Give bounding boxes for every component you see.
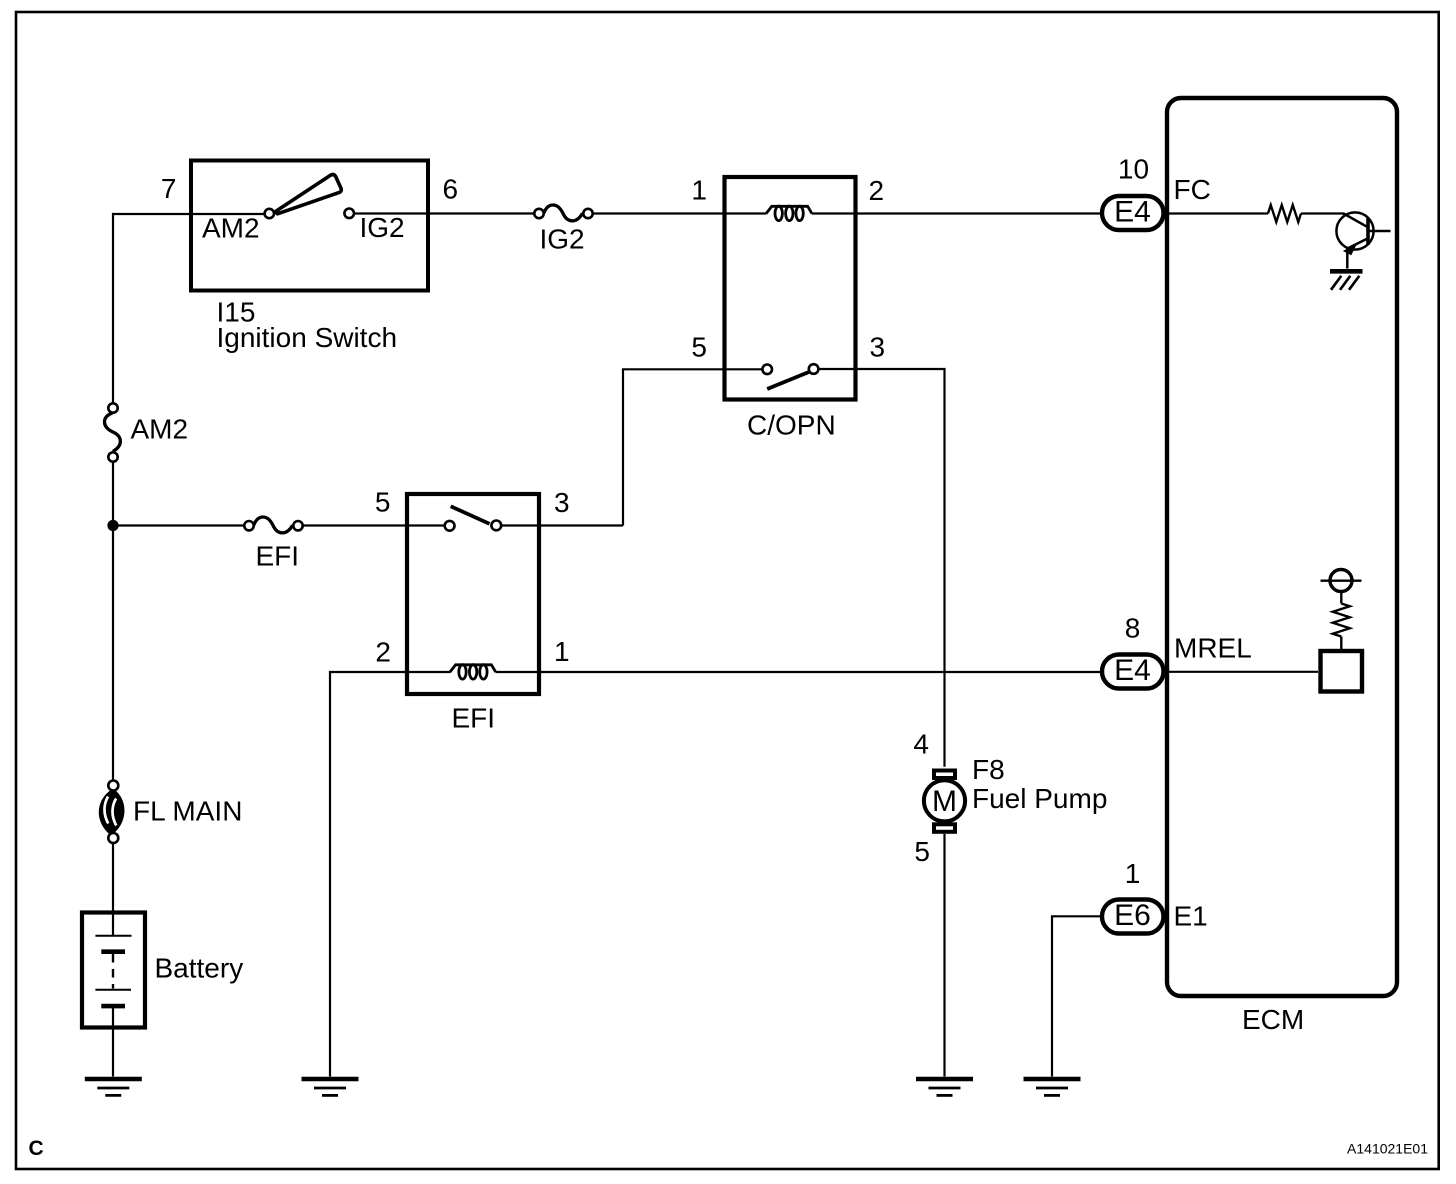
MREL load box [1321, 651, 1363, 692]
connector E6 pin 1 (E1) [1102, 900, 1164, 934]
svg-text:7: 7 [161, 173, 177, 204]
wire: MREL connector to load box [1166, 671, 1318, 673]
battery box [82, 913, 145, 1028]
svg-text:10: 10 [1118, 154, 1149, 185]
fusible link FL MAIN [100, 781, 123, 844]
relay C/OPN coil [766, 206, 812, 220]
ground at fuel pump [916, 1079, 973, 1095]
wire: fuse EFI to EFI relay pin 5 [303, 524, 445, 526]
battery-voltage terminal circle (B+) [1321, 570, 1362, 592]
relay C/OPN switch contact right [809, 364, 819, 374]
svg-text:FC: FC [1174, 174, 1211, 205]
svg-text:3: 3 [554, 487, 570, 518]
svg-text:ECM: ECM [1242, 1004, 1304, 1035]
svg-text:A141021E01: A141021E01 [1347, 1141, 1428, 1157]
svg-text:1: 1 [1125, 858, 1141, 889]
relay EFI switch contact right [491, 521, 501, 531]
ground at EFI relay coil [302, 1079, 359, 1095]
wire: battery feed from node to ignition switch pin 7 [113, 214, 265, 403]
relay C/OPN switch lever [767, 372, 809, 389]
wire: resistor to transistor [1301, 212, 1344, 214]
wire: C/OPN pin 2 to ECM FC connector [812, 212, 1101, 214]
wire: E6 connector to ground [1052, 916, 1101, 1076]
svg-text:C: C [29, 1137, 44, 1160]
ECM box [1167, 98, 1397, 996]
resistor in FC line [1268, 205, 1301, 222]
svg-text:IG2: IG2 [540, 224, 585, 255]
wire: FC connector to resistor [1166, 212, 1268, 214]
svg-text:4: 4 [913, 729, 929, 760]
svg-text:5: 5 [691, 332, 707, 363]
transistor FC driver [1336, 212, 1390, 268]
ground at E1 [1024, 1079, 1081, 1095]
svg-text:EFI: EFI [452, 703, 496, 734]
svg-text:IG2: IG2 [360, 212, 405, 243]
wire: fuse IG2 to C/OPN relay pin 1 [593, 212, 766, 214]
wire: fuse AM2 to junction node to FL MAIN [112, 462, 114, 781]
internal resistor above MREL load [1333, 604, 1350, 637]
svg-text:1: 1 [691, 175, 707, 206]
ignition switch AM2 terminal [265, 209, 274, 218]
svg-text:F8: F8 [972, 754, 1005, 785]
junction node [107, 520, 118, 531]
svg-text:Ignition Switch: Ignition Switch [217, 322, 398, 353]
relay EFI box [407, 494, 539, 694]
battery internal cells [95, 912, 131, 1077]
relay EFI switch lever [451, 506, 490, 524]
svg-text:E4: E4 [1114, 196, 1151, 229]
fuse AM2 [104, 403, 120, 461]
relay EFI switch contact left [445, 521, 455, 531]
svg-text:EFI: EFI [256, 541, 300, 572]
fuse EFI [244, 517, 302, 533]
wire: FL MAIN to battery [112, 843, 114, 911]
svg-text:6: 6 [443, 174, 459, 205]
fuel pump F8 motor [924, 771, 965, 832]
wire: fuel pump pin 5 to ground [943, 834, 945, 1077]
svg-text:AM2: AM2 [202, 213, 260, 244]
relay C/OPN switch contact left [762, 365, 772, 375]
wire: EFI coil pin 1 to ECM MREL connector [496, 671, 1101, 673]
wire: C/OPN pin 3 to fuel pump pin 4 [818, 369, 944, 767]
svg-text:FL MAIN: FL MAIN [133, 796, 242, 827]
svg-text:2: 2 [869, 175, 885, 206]
ignition switch I15 box [191, 161, 428, 291]
svg-text:MREL: MREL [1174, 633, 1252, 664]
wire: load box to internal resistor [1340, 637, 1342, 651]
svg-text:C/OPN: C/OPN [747, 410, 836, 441]
ground at battery [85, 1079, 142, 1095]
svg-text:M: M [932, 785, 957, 818]
relay C/OPN box [725, 177, 856, 400]
svg-text:8: 8 [1125, 613, 1141, 644]
connector E4 pin 10 (FC) [1102, 196, 1164, 230]
svg-text:5: 5 [375, 487, 391, 518]
ignition switch lever [276, 175, 342, 214]
wire: resistor to battery-voltage terminal circle [1340, 592, 1342, 603]
svg-text:2: 2 [375, 637, 391, 668]
fuse IG2 [534, 205, 592, 221]
svg-text:E1: E1 [1174, 901, 1208, 932]
ignition switch IG2 terminal [344, 209, 354, 219]
svg-text:Battery: Battery [155, 953, 244, 984]
connector E4 pin 8 (MREL) [1102, 655, 1164, 689]
relay EFI coil [450, 665, 496, 679]
svg-text:E4: E4 [1114, 654, 1151, 687]
wire: ignition IG2 to fuse IG2 [354, 212, 534, 214]
svg-text:1: 1 [554, 636, 570, 667]
wire: EFI coil pin 2 to ground [330, 672, 450, 1077]
svg-text:Fuel Pump: Fuel Pump [972, 783, 1107, 814]
chassis ground at transistor [1330, 271, 1363, 290]
wire: C/OPN pin 5 to EFI relay pin 3 [501, 369, 763, 525]
wire: junction to fuse EFI [113, 524, 244, 526]
svg-text:AM2: AM2 [131, 414, 189, 445]
svg-text:5: 5 [914, 836, 930, 867]
svg-text:3: 3 [870, 332, 886, 363]
svg-text:E6: E6 [1114, 899, 1151, 932]
